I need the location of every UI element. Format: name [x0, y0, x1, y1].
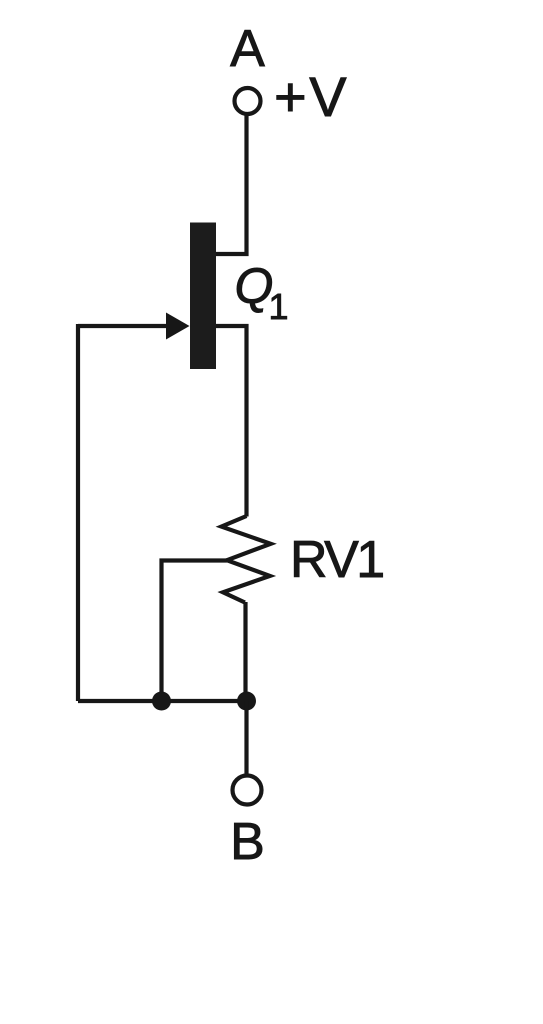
potentiometer RV1 zigzag [221, 516, 270, 603]
wire to terminal B [244, 701, 248, 774]
wiper tap wire [162, 561, 227, 702]
wire emitter to RV1 [216, 326, 247, 517]
wire bottom rail [78, 699, 247, 703]
svg-text:B: B [230, 813, 265, 871]
terminal B [233, 776, 262, 805]
junction dot left [152, 692, 171, 711]
svg-text:RV1: RV1 [290, 531, 383, 589]
svg-text:1: 1 [269, 286, 289, 327]
transistor Q1 body bar [190, 223, 216, 370]
svg-text:+V: +V [274, 65, 349, 128]
base arrow of Q1 [166, 313, 190, 340]
svg-text:A: A [230, 20, 265, 78]
wire feedback left vertical [76, 324, 80, 701]
wire RV1 bottom [243, 602, 247, 701]
wire base feedback horizontal [78, 324, 170, 328]
terminal A [235, 88, 261, 114]
wire terminal A to collector [216, 114, 247, 254]
junction dot right [237, 692, 256, 711]
